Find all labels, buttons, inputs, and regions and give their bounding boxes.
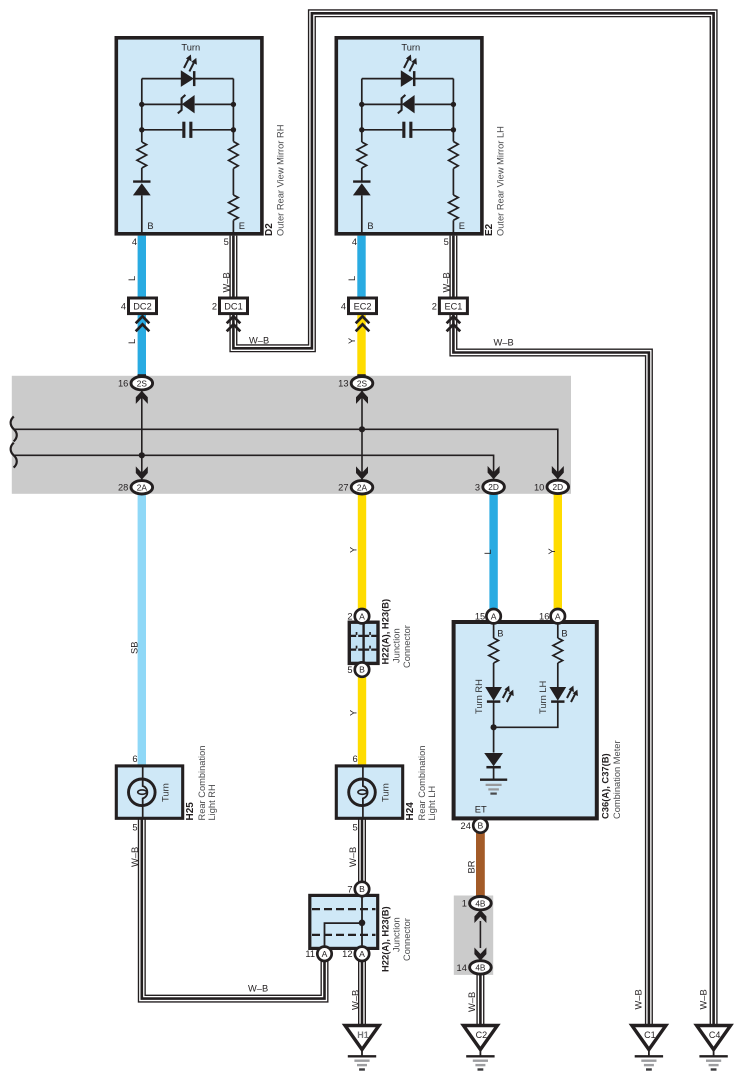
D2 left leg wire middle [141, 168, 143, 182]
svg-text:Y: Y [547, 548, 557, 554]
svg-text:5: 5 [444, 237, 449, 247]
svg-text:3: 3 [475, 482, 480, 492]
D2 right leg wire upper [232, 79, 234, 142]
svg-text:H25: H25 [185, 802, 196, 821]
svg-text:11: 11 [305, 949, 315, 959]
meter resistor LH [553, 638, 563, 663]
E2 resistor right lower [449, 195, 459, 220]
svg-text:Turn: Turn [181, 43, 200, 53]
svg-text:6: 6 [132, 754, 137, 764]
junction connector H22(A) H23(B) lower box [310, 895, 378, 948]
wire SB: 28 2A to H25 pin6 [138, 494, 146, 767]
harness shield band [12, 376, 571, 494]
wire L: 3 2D to meter 15A [489, 494, 497, 610]
meter wire LED LH to junction [494, 702, 558, 727]
D2 capacitor row wire [142, 129, 234, 131]
D2 turn LED [181, 55, 197, 87]
mirror unit E2 box [336, 38, 482, 234]
E2 resistor left leg [357, 142, 367, 168]
svg-text:W–B: W–B [249, 336, 269, 346]
meter LED Turn LH [549, 686, 578, 702]
junction dot shield right [359, 426, 365, 432]
svg-text:27: 27 [338, 483, 348, 493]
svg-text:W–B: W–B [130, 847, 140, 867]
svg-text:Rear Combination: Rear Combination [197, 746, 207, 821]
svg-text:5: 5 [347, 665, 352, 675]
svg-text:H22(A), H23(B): H22(A), H23(B) [380, 599, 391, 665]
connector EC1 box [439, 298, 467, 314]
svg-text:L: L [347, 276, 357, 281]
svg-text:DC1: DC1 [224, 302, 242, 312]
junction connector H22(A) H23(B) upper box [349, 622, 378, 663]
svg-text:A: A [491, 611, 497, 621]
wire end cap at 16 2S [138, 374, 146, 379]
svg-text:28: 28 [118, 483, 128, 493]
svg-text:A: A [359, 949, 365, 959]
connector 14 4B [457, 961, 492, 974]
svg-text:W–B: W–B [442, 272, 452, 292]
D2 zener diode [178, 95, 195, 114]
lower junction wire to 11A [325, 923, 363, 947]
E2 junction dot left zener [359, 102, 364, 107]
svg-text:C4: C4 [709, 1030, 721, 1040]
connector DC1 box [220, 298, 248, 314]
svg-text:W–B: W–B [494, 338, 514, 348]
svg-text:Connector: Connector [402, 918, 412, 961]
arrow into 16 2S [136, 391, 148, 404]
svg-text:W–B: W–B [350, 990, 360, 1010]
connector 4B gray block [454, 896, 493, 975]
svg-text:D2: D2 [264, 223, 275, 236]
svg-text:Junction: Junction [392, 628, 402, 663]
D2 resistor right upper [229, 142, 239, 169]
svg-text:ET: ET [475, 804, 487, 814]
svg-text:EC1: EC1 [444, 302, 462, 312]
H24 turn bulb [349, 779, 376, 806]
svg-text:14: 14 [457, 963, 467, 973]
junction pin 12 A [342, 947, 369, 961]
svg-text:4B: 4B [475, 898, 486, 908]
svg-text:2: 2 [212, 301, 217, 311]
H25 internal wire top [142, 766, 144, 779]
svg-text:C2: C2 [476, 1030, 488, 1040]
svg-text:W–B: W–B [348, 847, 358, 867]
arrow into 13 2S [356, 391, 368, 404]
harness break mark lower [11, 443, 17, 468]
lamp unit H24 box [336, 766, 402, 818]
meter internal ground [480, 780, 507, 794]
mirror unit D2 box [116, 38, 262, 234]
combination meter C36(A) C37(B) box [454, 622, 597, 818]
D2 junction dot right capacitor [231, 127, 236, 132]
svg-text:Turn LH: Turn LH [538, 681, 548, 714]
connector EC2 box [349, 298, 377, 314]
H24 internal wire bottom [362, 805, 364, 818]
wire Y: 10 2D to meter 16A [554, 494, 562, 610]
svg-text:B: B [359, 665, 365, 675]
D2 resistor right lower [229, 195, 239, 220]
svg-text:7: 7 [347, 884, 352, 894]
connector DC2 chevron arrows [136, 316, 150, 331]
shield wire 13 2S to 27 2A [361, 391, 363, 481]
connector EC1 chevron arrows [447, 316, 461, 331]
E2 capacitor row wire [362, 129, 454, 131]
wire Y: 27 2A to junction 2A [358, 494, 366, 610]
E2 capacitor [402, 122, 412, 138]
shield bus wire lower to 3 2D [14, 455, 494, 480]
svg-text:2A: 2A [357, 482, 368, 492]
svg-text:2D: 2D [552, 482, 563, 492]
svg-text:A: A [555, 611, 561, 621]
svg-text:16: 16 [118, 379, 128, 389]
D2 resistor left leg [137, 142, 147, 168]
ground H1 [345, 1026, 379, 1070]
svg-text:B: B [497, 628, 503, 638]
svg-text:Y: Y [347, 338, 357, 344]
svg-text:Turn: Turn [381, 783, 391, 802]
D2 zener row wire [142, 103, 234, 105]
meter pin 15 A [475, 609, 501, 623]
lower junction dot [359, 920, 366, 927]
svg-text:EC2: EC2 [354, 302, 372, 312]
wire Y: junction 5B to H24 pin6 [358, 676, 366, 767]
svg-text:Connector: Connector [402, 625, 412, 668]
connector 16 2S [118, 377, 153, 390]
svg-text:H24: H24 [405, 802, 416, 821]
svg-text:Combination Meter: Combination Meter [612, 740, 622, 819]
svg-text:2: 2 [432, 301, 437, 311]
wire W-B: D2 pin5 via DC1 over top to ground C4 [233, 13, 713, 1026]
meter pin 16 A [539, 609, 565, 623]
svg-text:15: 15 [475, 612, 485, 622]
svg-text:L: L [483, 549, 493, 554]
ground C1 [632, 1026, 666, 1070]
E2 junction dot right zener [451, 102, 456, 107]
svg-text:5: 5 [353, 823, 358, 833]
connector EC2 chevron arrows [356, 316, 370, 331]
svg-text:Light RH: Light RH [207, 784, 217, 820]
ground C2 [463, 1026, 497, 1070]
E2 left leg wire lower [361, 195, 363, 233]
svg-text:Rear Combination: Rear Combination [417, 746, 427, 821]
wire end cap at 13 2S [357, 374, 365, 379]
D2 right leg wire lower [232, 220, 234, 234]
connector DC1 chevron arrows [227, 316, 241, 331]
svg-text:E2: E2 [484, 223, 495, 236]
svg-text:B: B [561, 628, 567, 638]
svg-text:C1: C1 [644, 1030, 656, 1040]
D2 left leg wire lower [141, 195, 143, 233]
meter wire LED RH to diode [493, 702, 495, 753]
meter resistor RH [489, 638, 499, 663]
svg-text:Y: Y [348, 710, 358, 716]
connector DC2 box [129, 298, 157, 314]
wire L: E2 pin4 to EC2 [357, 236, 365, 314]
svg-text:L: L [127, 276, 137, 281]
svg-text:BR: BR [467, 860, 477, 873]
svg-text:H22(A), H23(B): H22(A), H23(B) [380, 906, 391, 972]
svg-text:W–B: W–B [698, 989, 708, 1009]
svg-text:13: 13 [338, 379, 348, 389]
E2 zener row wire [362, 103, 454, 105]
arrow into 14 4B [474, 948, 486, 961]
svg-text:2: 2 [347, 612, 352, 622]
E2 junction dot right capacitor [451, 127, 456, 132]
E2 left leg wire middle [361, 168, 363, 182]
E2 left leg wire upper [361, 79, 363, 142]
svg-text:Outer Rear View Mirror LH: Outer Rear View Mirror LH [495, 126, 505, 236]
svg-text:B: B [359, 884, 365, 894]
svg-text:C36(A), C37(B): C36(A), C37(B) [600, 753, 611, 819]
svg-text:Junction: Junction [392, 917, 402, 952]
meter diode [484, 753, 503, 780]
svg-text:L: L [127, 339, 137, 344]
svg-text:DC2: DC2 [133, 302, 151, 312]
wire between 4B connectors [479, 921, 481, 948]
arrow into 28 2A [136, 466, 148, 479]
svg-text:5: 5 [132, 823, 137, 833]
svg-text:B: B [147, 221, 153, 231]
arrow into 1 4B [474, 910, 486, 923]
svg-text:12: 12 [342, 949, 352, 959]
svg-text:Turn RH: Turn RH [474, 679, 484, 714]
meter wire 15A to resistor [493, 624, 495, 639]
E2 turn LED [401, 55, 417, 87]
svg-text:2D: 2D [488, 482, 499, 492]
ground C4 [697, 1026, 731, 1070]
connector 28 2A [118, 481, 153, 494]
E2 LED row wire [362, 78, 454, 80]
E2 right leg wire upper [452, 79, 454, 142]
connector 10 2D [534, 480, 569, 493]
svg-text:4: 4 [352, 237, 357, 247]
arrow into 27 2A [356, 466, 368, 479]
svg-text:W–B: W–B [467, 992, 477, 1012]
connector 13 2S [338, 377, 373, 390]
svg-text:2S: 2S [357, 378, 368, 388]
svg-text:4: 4 [341, 301, 346, 311]
connector 3 2D [475, 480, 504, 493]
svg-text:2S: 2S [137, 378, 148, 388]
svg-text:H1: H1 [357, 1030, 369, 1040]
H25 turn bulb [129, 779, 156, 806]
connector 1 4B [462, 897, 491, 910]
lower junction wire 7B to 12A [361, 896, 363, 948]
svg-text:W–B: W–B [248, 983, 268, 993]
D2 junction dot left capacitor [139, 127, 144, 132]
E2 right leg wire lower [452, 220, 454, 234]
junction pin 11 A [305, 947, 331, 961]
E2 zener diode [398, 95, 415, 114]
svg-text:Turn: Turn [160, 783, 170, 802]
arrow into 3 2D [488, 466, 500, 479]
D2 junction dot right zener [231, 102, 236, 107]
wire W-B: H24 pin5 to junction 7B [358, 818, 366, 882]
E2 diode [353, 182, 371, 196]
E2 right leg wire middle [452, 169, 454, 196]
wire W-B: 14 4B to ground C2 [476, 975, 484, 1027]
shield wire 16 2S to 28 2A [141, 391, 143, 481]
svg-text:4: 4 [121, 301, 126, 311]
svg-text:A: A [359, 611, 365, 621]
svg-text:Y: Y [348, 547, 358, 553]
junction pin 5 B upper [347, 662, 369, 676]
wire BR: meter 24B to 1 4B [476, 833, 485, 898]
junction pin 2 A upper [347, 609, 369, 623]
wire L: D2 pin4 through DC2 to 16 2S [138, 236, 146, 378]
svg-text:E: E [459, 221, 465, 231]
svg-text:2A: 2A [137, 482, 148, 492]
wire Y: EC2 to 13 2S [357, 314, 365, 378]
svg-text:Turn: Turn [401, 43, 420, 53]
meter wire resistor to LED RH [493, 663, 495, 687]
svg-text:W–B: W–B [222, 272, 232, 292]
svg-text:SB: SB [130, 642, 140, 654]
svg-text:4B: 4B [475, 963, 486, 973]
svg-text:Outer Rear View Mirror RH: Outer Rear View Mirror RH [275, 125, 285, 236]
junction pin 7 B [347, 882, 369, 896]
E2 resistor right upper [449, 142, 459, 169]
svg-text:5: 5 [224, 237, 229, 247]
svg-text:B: B [478, 821, 484, 831]
H24 internal wire top [362, 766, 364, 779]
meter junction dot [491, 724, 497, 730]
D2 LED row wire [142, 78, 234, 80]
harness break mark upper [11, 417, 17, 442]
meter wire 16A to resistor [557, 624, 559, 639]
D2 right leg wire middle [232, 169, 234, 196]
D2 junction dot left zener [139, 102, 144, 107]
E2 junction dot left capacitor [359, 127, 364, 132]
junction dot shield left [139, 452, 145, 458]
D2 capacitor [182, 122, 192, 138]
D2 left leg wire upper [141, 79, 143, 142]
lamp unit H25 box [116, 766, 182, 818]
connector 27 2A [338, 481, 373, 494]
svg-text:4: 4 [132, 237, 137, 247]
wire W-B: junction 12A to ground H1 [358, 961, 366, 1027]
wire W-B: H25 pin5 to junction 11A [142, 818, 325, 998]
svg-text:W–B: W–B [634, 989, 644, 1009]
wire W-B: E2 pin5 via EC1 to ground C1 [453, 236, 649, 1027]
H25 internal wire bottom [142, 805, 144, 818]
svg-text:16: 16 [539, 612, 549, 622]
shield bus wire upper to 10 2D [14, 429, 558, 480]
meter wire resistor to LED LH [557, 663, 559, 687]
svg-text:B: B [367, 221, 373, 231]
svg-text:A: A [322, 949, 328, 959]
svg-text:Light LH: Light LH [427, 786, 437, 821]
svg-text:E: E [239, 221, 245, 231]
meter LED Turn RH [485, 686, 514, 702]
meter pin 24 B [461, 818, 488, 832]
svg-text:10: 10 [534, 482, 544, 492]
arrow into 10 2D [552, 466, 564, 479]
svg-text:24: 24 [461, 821, 471, 831]
svg-text:1: 1 [462, 899, 467, 909]
svg-text:6: 6 [353, 754, 358, 764]
D2 diode [133, 182, 151, 196]
